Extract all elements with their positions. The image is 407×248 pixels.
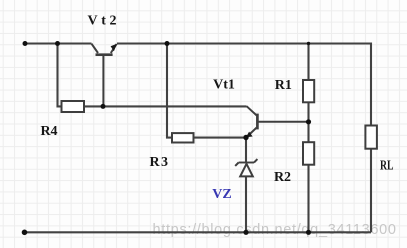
svg-text:RL: RL [380, 159, 394, 174]
wire VZ lower [245, 176, 247, 232]
VZ cathode right tail [254, 159, 257, 162]
wire bottom rail [25, 231, 372, 233]
Vt1 collector diagonal [247, 106, 257, 115]
zener diode VZ [235, 159, 257, 176]
node Vt1 emitter / VZ / R3 junction [243, 135, 248, 140]
resistor R1 [303, 80, 314, 102]
wire R4 drop from input node [58, 44, 62, 107]
resistor R2 [303, 142, 314, 165]
svg-text:Vt1: Vt1 [213, 78, 235, 93]
node Vt1 base / R1 R2 junction [306, 119, 311, 124]
svg-text:VZ: VZ [212, 187, 231, 202]
Vt2 emitter diagonal [111, 44, 117, 53]
resistor R3 [172, 133, 194, 142]
svg-text:https://blog.csdn.net/qq_34113: https://blog.csdn.net/qq_34113600 [153, 222, 397, 238]
node Vt2 base / R4 junction [101, 104, 106, 109]
transistor Q Vt1 [246, 106, 309, 137]
Vt2 collector diagonal [92, 44, 99, 53]
node R3 top junction [165, 41, 170, 46]
wire R3 drop from output rail [167, 44, 172, 138]
svg-text:Vt2: Vt2 [88, 13, 117, 28]
node bottom-left terminal [22, 230, 28, 236]
wire R2 to bottom rail [307, 165, 309, 233]
svg-text:R2: R2 [274, 170, 291, 185]
svg-text:R1: R1 [275, 78, 292, 93]
svg-text:R4: R4 [40, 124, 57, 139]
resistor RL [365, 126, 377, 149]
Vt2 emitter arrow [111, 44, 117, 52]
wire R1 top [307, 44, 309, 81]
node R2 bottom junction [306, 230, 311, 235]
Vt1 emitter diagonal [247, 128, 257, 137]
wire R3 to Vt1 emitter node [194, 137, 247, 139]
Vt1 base bar [256, 114, 259, 130]
Vt1 base lead [258, 121, 308, 123]
Vt2 base lead [102, 56, 104, 107]
Vt2 base bar [96, 53, 113, 56]
transistor Q Vt2 [92, 44, 117, 107]
wire RL to bottom rail [370, 149, 372, 233]
svg-text:R3: R3 [150, 155, 169, 170]
VZ cathode left tail [235, 163, 238, 166]
wire top rail left segment [25, 42, 92, 44]
node R1 top junction [307, 42, 310, 45]
wire top rail right segment [117, 44, 371, 126]
Vt1 emitter arrow [246, 132, 253, 138]
VZ cathode bar [239, 162, 254, 164]
VZ anode triangle [240, 164, 253, 177]
wire R4 row to Vt1 collector [84, 105, 247, 107]
resistor R4 [62, 101, 85, 112]
node input top-left [23, 41, 28, 46]
node VZ bottom junction [243, 230, 248, 235]
wire R1 to R2 [307, 102, 309, 142]
node R4 top junction [55, 41, 60, 46]
wire VZ upper [245, 138, 247, 163]
